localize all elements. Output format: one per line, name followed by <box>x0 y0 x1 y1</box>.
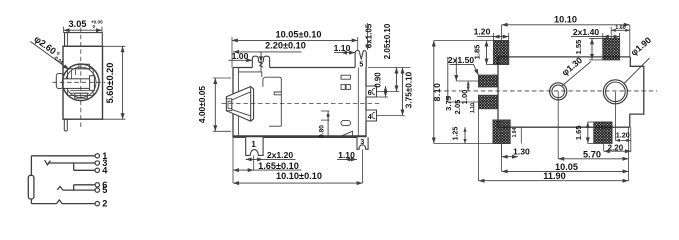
svg-text:0.90: 0.90 <box>374 72 383 88</box>
svg-text:3.75±0.10: 3.75±0.10 <box>405 71 414 108</box>
svg-text:1.30: 1.30 <box>513 147 530 157</box>
svg-text:2x1.40: 2x1.40 <box>573 27 600 37</box>
svg-text:10.10±0.10: 10.10±0.10 <box>276 171 322 181</box>
svg-text:4: 4 <box>368 114 372 121</box>
svg-text:1.65: 1.65 <box>574 125 583 140</box>
svg-text:10.10: 10.10 <box>554 14 577 24</box>
svg-text:6: 6 <box>368 90 372 97</box>
svg-text:1.94: 1.94 <box>512 127 518 137</box>
svg-text:1.20: 1.20 <box>616 131 630 140</box>
svg-text:0: 0 <box>93 24 96 29</box>
svg-text:0.80: 0.80 <box>318 125 325 138</box>
svg-text:1.65±0.10: 1.65±0.10 <box>258 161 299 171</box>
svg-text:2x1.50: 2x1.50 <box>448 55 475 65</box>
svg-text:3.05: 3.05 <box>69 19 87 29</box>
svg-text:4.00±0.05: 4.00±0.05 <box>197 86 207 124</box>
svg-text:2.20±0.10: 2.20±0.10 <box>265 41 306 51</box>
svg-text:1.25: 1.25 <box>453 127 460 141</box>
svg-text:2: 2 <box>102 199 107 209</box>
svg-text:4: 4 <box>102 165 108 175</box>
svg-text:1.00: 1.00 <box>460 90 469 105</box>
svg-text:1.85: 1.85 <box>473 45 482 60</box>
svg-text:1.10: 1.10 <box>470 103 476 113</box>
svg-text:5.70: 5.70 <box>583 149 601 159</box>
svg-text:5: 5 <box>359 61 363 68</box>
svg-text:2.05±0.10: 2.05±0.10 <box>383 23 392 59</box>
svg-text:1.10: 1.10 <box>334 43 351 53</box>
svg-text:11.90: 11.90 <box>543 171 565 181</box>
svg-text:1.55: 1.55 <box>574 40 583 55</box>
svg-text:1.20: 1.20 <box>474 26 491 36</box>
svg-text:10.05±0.10: 10.05±0.10 <box>276 30 322 40</box>
svg-text:5: 5 <box>102 185 107 195</box>
svg-text:2x1.20: 2x1.20 <box>267 150 294 160</box>
svg-text:1.00: 1.00 <box>232 51 249 61</box>
svg-text:5.60±0.20: 5.60±0.20 <box>105 63 115 104</box>
svg-text:1: 1 <box>251 140 256 149</box>
svg-text:3: 3 <box>360 139 364 146</box>
